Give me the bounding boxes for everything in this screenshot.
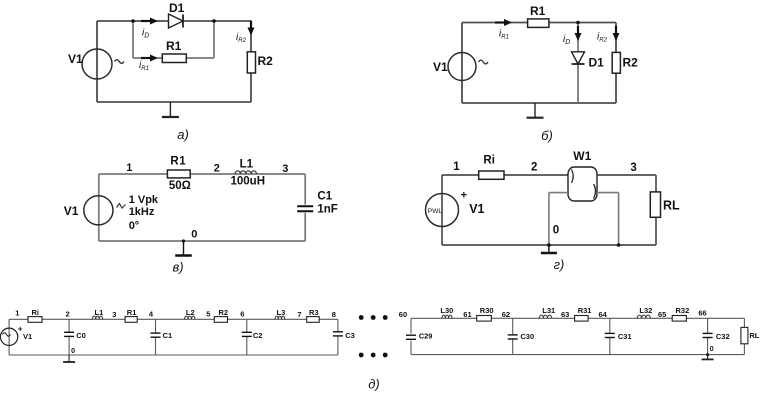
svg-text:C30: C30 xyxy=(520,332,534,341)
svg-text:V1: V1 xyxy=(433,60,448,74)
svg-text:W1: W1 xyxy=(573,149,591,163)
svg-text:62: 62 xyxy=(502,310,510,319)
svg-text:V1: V1 xyxy=(23,332,32,341)
svg-text:C3: C3 xyxy=(345,331,355,340)
svg-text:D1: D1 xyxy=(589,56,605,70)
svg-text:C31: C31 xyxy=(618,332,632,341)
svg-text:3: 3 xyxy=(282,163,288,175)
svg-text:0: 0 xyxy=(553,225,559,237)
svg-text:R32: R32 xyxy=(676,306,690,315)
svg-text:R30: R30 xyxy=(480,306,494,315)
svg-text:2: 2 xyxy=(66,310,70,319)
svg-text:Ri: Ri xyxy=(483,155,495,167)
svg-text:RL: RL xyxy=(749,331,759,340)
svg-text:1: 1 xyxy=(126,162,132,174)
svg-text:R1: R1 xyxy=(530,4,546,18)
svg-text:1 Vpk: 1 Vpk xyxy=(129,194,159,206)
svg-text:д): д) xyxy=(368,377,380,392)
svg-text:60: 60 xyxy=(399,310,407,319)
svg-text:г): г) xyxy=(554,257,565,272)
svg-text:3: 3 xyxy=(112,310,116,319)
svg-text:R1: R1 xyxy=(170,156,186,168)
svg-text:61: 61 xyxy=(463,310,471,319)
svg-text:V1: V1 xyxy=(64,204,79,218)
svg-text:V1: V1 xyxy=(68,52,83,66)
svg-text:65: 65 xyxy=(658,310,666,319)
svg-text:+: + xyxy=(461,189,467,201)
svg-text:R2: R2 xyxy=(623,56,639,70)
svg-text:7: 7 xyxy=(297,310,301,319)
svg-text:2: 2 xyxy=(214,163,220,175)
svg-text:63: 63 xyxy=(561,310,569,319)
svg-text:1kHz: 1kHz xyxy=(129,206,155,218)
svg-text:L3: L3 xyxy=(277,308,286,317)
svg-text:а): а) xyxy=(177,127,189,142)
svg-text:1: 1 xyxy=(453,161,460,173)
svg-text:D1: D1 xyxy=(169,1,185,15)
svg-text:66: 66 xyxy=(698,309,706,318)
svg-text:100uH: 100uH xyxy=(231,176,266,188)
svg-text:C32: C32 xyxy=(716,332,730,341)
svg-text:C0: C0 xyxy=(76,331,86,340)
svg-text:в): в) xyxy=(172,260,183,275)
svg-text:R1: R1 xyxy=(127,308,137,317)
svg-text:R1: R1 xyxy=(166,39,182,53)
svg-text:1nF: 1nF xyxy=(317,204,337,216)
svg-text:R3: R3 xyxy=(309,308,319,317)
svg-text:PWL: PWL xyxy=(428,208,442,215)
svg-text:C2: C2 xyxy=(253,331,263,340)
svg-text:V1: V1 xyxy=(469,202,484,216)
svg-text:C1: C1 xyxy=(317,191,332,203)
svg-text:RL: RL xyxy=(663,199,680,213)
svg-text:L1: L1 xyxy=(240,159,254,171)
svg-text:2: 2 xyxy=(531,162,537,174)
svg-text:0°: 0° xyxy=(129,220,140,232)
svg-text:5: 5 xyxy=(206,310,210,319)
svg-text:б): б) xyxy=(541,128,553,143)
svg-text:R31: R31 xyxy=(578,306,592,315)
svg-text:R2: R2 xyxy=(258,54,274,68)
svg-text:3: 3 xyxy=(630,162,636,174)
svg-text:0: 0 xyxy=(71,348,75,355)
svg-text:L30: L30 xyxy=(440,306,453,315)
svg-text:50Ω: 50Ω xyxy=(169,180,191,192)
svg-text:0: 0 xyxy=(710,346,714,353)
svg-text:8: 8 xyxy=(332,310,336,319)
svg-text:L31: L31 xyxy=(542,306,555,315)
svg-text:C29: C29 xyxy=(419,332,433,341)
svg-text:Ri: Ri xyxy=(32,308,40,317)
svg-text:64: 64 xyxy=(599,310,608,319)
svg-text:C1: C1 xyxy=(163,331,173,340)
svg-text:1: 1 xyxy=(15,309,19,318)
svg-text:L2: L2 xyxy=(186,308,195,317)
svg-text:R2: R2 xyxy=(219,308,229,317)
svg-text:6: 6 xyxy=(240,310,244,319)
svg-text:0: 0 xyxy=(191,229,197,241)
svg-text:L32: L32 xyxy=(639,306,652,315)
svg-text:L1: L1 xyxy=(95,308,104,317)
